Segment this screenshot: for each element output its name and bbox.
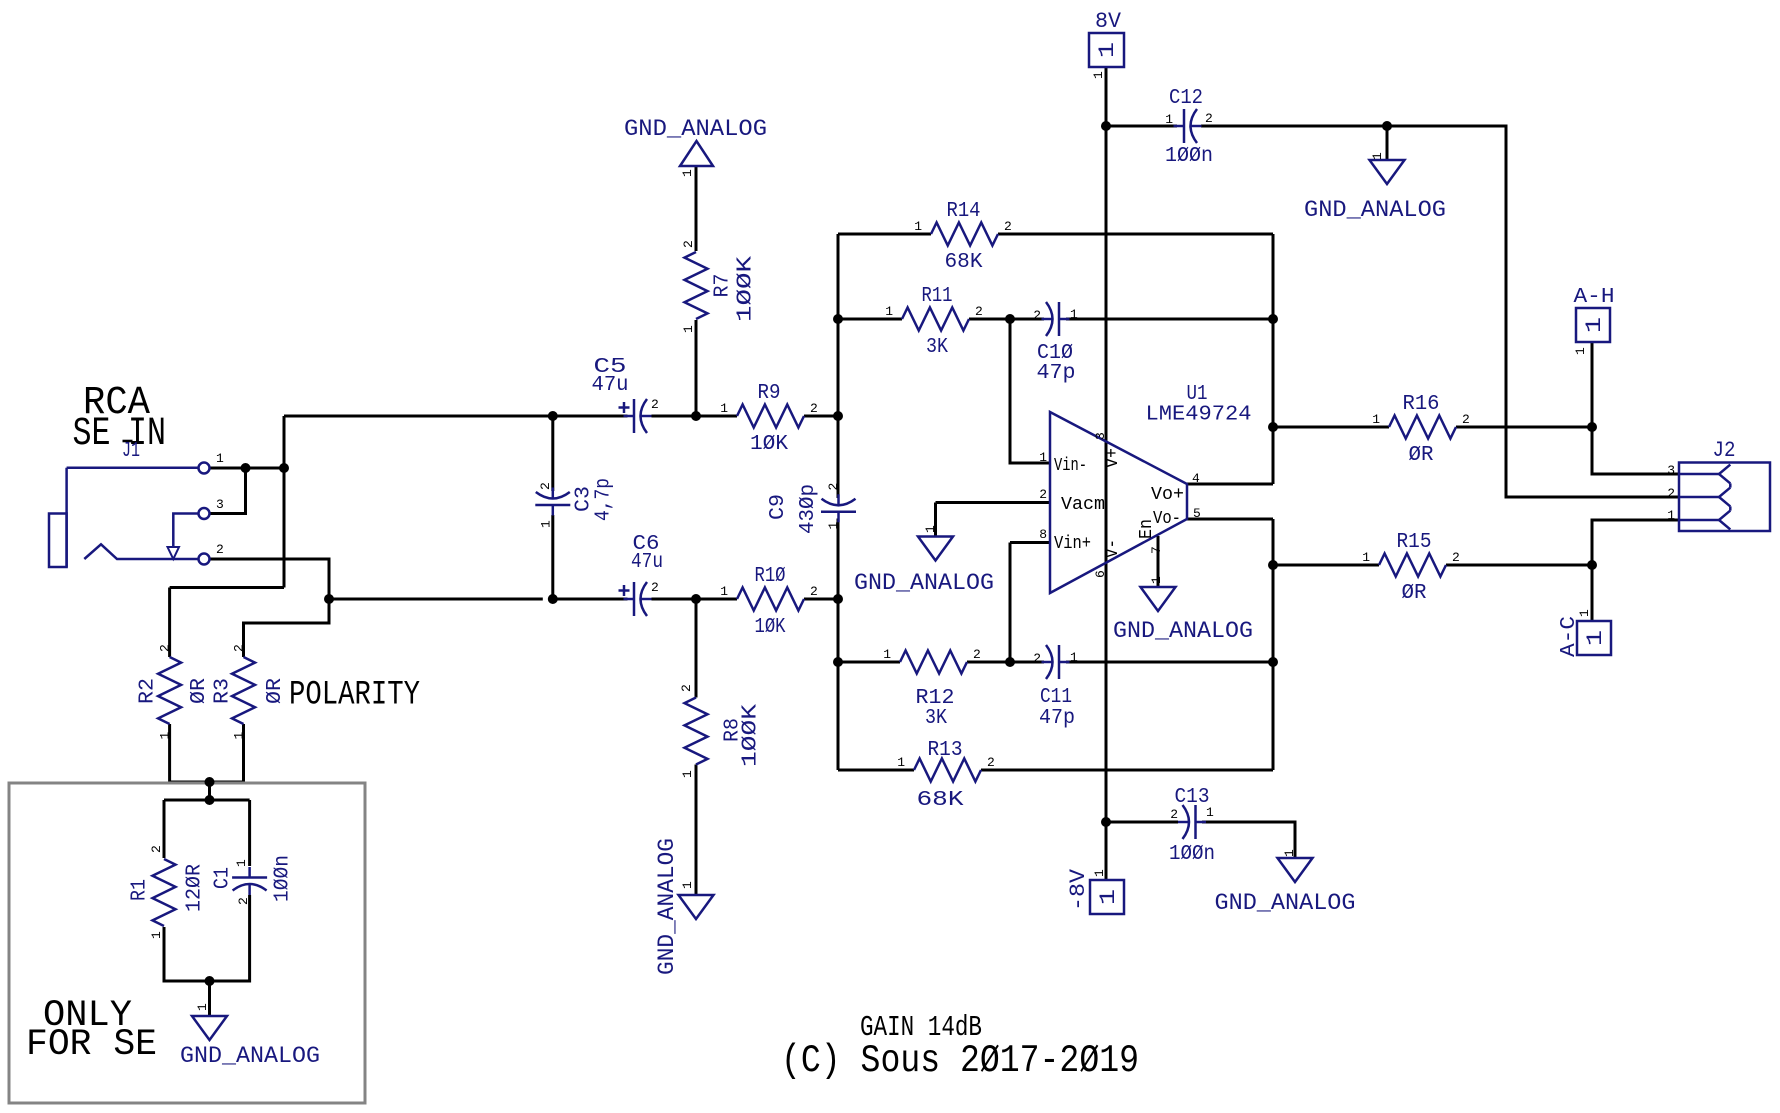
svg-text:FOR SE: FOR SE bbox=[26, 1024, 157, 1066]
svg-text:GND_ANALOG: GND_ANALOG bbox=[1304, 197, 1446, 224]
svg-text:R14: R14 bbox=[947, 200, 981, 223]
svg-text:2: 2 bbox=[149, 845, 164, 853]
svg-text:2: 2 bbox=[232, 644, 247, 652]
svg-text:C12: C12 bbox=[1169, 87, 1203, 110]
svg-text:2: 2 bbox=[1033, 651, 1041, 666]
svg-text:1: 1 bbox=[1165, 112, 1173, 127]
svg-text:R13: R13 bbox=[928, 739, 963, 762]
svg-text:47p: 47p bbox=[1039, 707, 1075, 730]
svg-text:2: 2 bbox=[1033, 308, 1041, 323]
svg-text:1: 1 bbox=[680, 770, 695, 778]
svg-text:ØR: ØR bbox=[1409, 444, 1434, 467]
svg-text:1: 1 bbox=[1149, 576, 1164, 584]
svg-text:ØR: ØR bbox=[1402, 582, 1427, 605]
svg-text:Vo+: Vo+ bbox=[1151, 485, 1184, 505]
svg-text:(C) Sous 2Ø17-2Ø19: (C) Sous 2Ø17-2Ø19 bbox=[781, 1039, 1139, 1083]
svg-text:1: 1 bbox=[897, 755, 905, 770]
svg-text:1: 1 bbox=[885, 304, 893, 319]
svg-text:2: 2 bbox=[1205, 111, 1213, 126]
svg-text:2: 2 bbox=[1004, 219, 1012, 234]
svg-text:1: 1 bbox=[1039, 450, 1047, 465]
svg-text:8V: 8V bbox=[1095, 9, 1122, 34]
svg-text:2: 2 bbox=[810, 584, 818, 599]
svg-text:2: 2 bbox=[236, 897, 251, 905]
svg-text:2: 2 bbox=[651, 397, 659, 412]
svg-text:J2: J2 bbox=[1713, 438, 1736, 463]
svg-text:1: 1 bbox=[1092, 869, 1107, 877]
svg-text:C13: C13 bbox=[1175, 786, 1210, 809]
svg-text:1: 1 bbox=[195, 1003, 210, 1011]
svg-text:1ØØK: 1ØØK bbox=[735, 255, 758, 322]
svg-text:R2: R2 bbox=[137, 678, 160, 704]
svg-text:2: 2 bbox=[679, 684, 694, 692]
svg-text:1: 1 bbox=[1095, 42, 1120, 58]
svg-text:R16: R16 bbox=[1403, 393, 1440, 416]
svg-text:1: 1 bbox=[1206, 805, 1214, 820]
svg-text:2: 2 bbox=[1039, 487, 1047, 502]
svg-text:LME49724: LME49724 bbox=[1146, 404, 1252, 427]
svg-text:5: 5 bbox=[1193, 506, 1201, 521]
svg-text:R9: R9 bbox=[758, 382, 781, 405]
svg-text:SE: SE bbox=[73, 412, 111, 457]
svg-text:C1: C1 bbox=[212, 867, 235, 889]
svg-text:12ØR: 12ØR bbox=[184, 864, 207, 912]
svg-text:ØR: ØR bbox=[188, 678, 211, 704]
svg-text:V-: V- bbox=[1103, 539, 1123, 558]
svg-text:1: 1 bbox=[216, 451, 224, 466]
svg-text:1: 1 bbox=[720, 401, 728, 416]
svg-text:43Øp: 43Øp bbox=[797, 484, 820, 534]
svg-text:Vacm: Vacm bbox=[1061, 495, 1105, 515]
svg-text:1: 1 bbox=[1070, 650, 1078, 665]
svg-text:1: 1 bbox=[720, 584, 728, 599]
svg-text:68K: 68K bbox=[917, 789, 964, 812]
svg-text:2: 2 bbox=[1667, 486, 1675, 501]
svg-text:A-C: A-C bbox=[1558, 616, 1581, 657]
svg-text:2: 2 bbox=[538, 482, 553, 490]
svg-text:2: 2 bbox=[987, 755, 995, 770]
svg-text:GND_ANALOG: GND_ANALOG bbox=[1113, 618, 1253, 645]
svg-text:GND_ANALOG: GND_ANALOG bbox=[654, 838, 681, 975]
svg-text:1ØØn: 1ØØn bbox=[1165, 145, 1213, 168]
svg-text:1: 1 bbox=[883, 647, 891, 662]
svg-text:1ØK: 1ØK bbox=[755, 616, 786, 639]
svg-text:1: 1 bbox=[158, 732, 173, 740]
svg-text:68K: 68K bbox=[945, 251, 983, 274]
svg-text:1: 1 bbox=[1577, 609, 1592, 617]
svg-text:V+: V+ bbox=[1103, 448, 1123, 468]
svg-text:47u: 47u bbox=[631, 551, 663, 574]
svg-text:1: 1 bbox=[1582, 317, 1607, 333]
svg-text:47p: 47p bbox=[1037, 362, 1076, 385]
svg-text:1: 1 bbox=[1282, 849, 1297, 857]
svg-text:J1: J1 bbox=[122, 440, 140, 463]
svg-text:1: 1 bbox=[149, 931, 164, 939]
svg-text:6: 6 bbox=[1093, 570, 1108, 578]
svg-text:2: 2 bbox=[1170, 807, 1178, 822]
svg-text:3K: 3K bbox=[926, 336, 948, 359]
svg-text:C9: C9 bbox=[767, 494, 790, 520]
svg-text:1: 1 bbox=[680, 881, 695, 889]
svg-text:1: 1 bbox=[1091, 71, 1106, 79]
svg-text:1: 1 bbox=[923, 525, 938, 533]
svg-text:1: 1 bbox=[232, 732, 247, 740]
svg-text:Vo-: Vo- bbox=[1153, 509, 1181, 529]
svg-text:2: 2 bbox=[810, 401, 818, 416]
svg-text:1: 1 bbox=[681, 325, 696, 333]
svg-text:R11: R11 bbox=[922, 285, 953, 308]
svg-text:R3: R3 bbox=[212, 678, 235, 704]
svg-text:2: 2 bbox=[975, 304, 983, 319]
svg-text:ØR: ØR bbox=[264, 678, 287, 704]
svg-text:1ØØK: 1ØØK bbox=[740, 704, 763, 767]
svg-text:GND_ANALOG: GND_ANALOG bbox=[180, 1043, 320, 1070]
svg-text:R15: R15 bbox=[1397, 531, 1432, 554]
svg-text:3: 3 bbox=[1667, 463, 1675, 478]
svg-text:7: 7 bbox=[1149, 546, 1164, 554]
svg-text:1ØØn: 1ØØn bbox=[272, 855, 295, 902]
svg-text:En: En bbox=[1137, 519, 1157, 539]
svg-text:POLARITY: POLARITY bbox=[289, 677, 420, 715]
svg-text:1: 1 bbox=[539, 520, 554, 528]
svg-text:2: 2 bbox=[1462, 412, 1470, 427]
svg-text:Vin+: Vin+ bbox=[1054, 534, 1091, 554]
svg-text:2: 2 bbox=[826, 483, 841, 491]
svg-text:1: 1 bbox=[1070, 307, 1078, 322]
svg-text:C11: C11 bbox=[1040, 686, 1072, 709]
svg-text:1: 1 bbox=[826, 522, 841, 530]
svg-text:1: 1 bbox=[1370, 152, 1385, 160]
svg-text:R7: R7 bbox=[712, 274, 735, 298]
svg-text:R1Ø: R1Ø bbox=[755, 565, 786, 588]
svg-text:1ØK: 1ØK bbox=[750, 433, 788, 456]
svg-text:2: 2 bbox=[681, 240, 696, 248]
svg-text:-8V: -8V bbox=[1066, 868, 1091, 911]
svg-text:1: 1 bbox=[234, 859, 249, 867]
svg-text:8: 8 bbox=[1039, 527, 1047, 542]
svg-text:GND_ANALOG: GND_ANALOG bbox=[1215, 890, 1356, 917]
svg-text:1: 1 bbox=[1372, 412, 1380, 427]
svg-text:Vin-: Vin- bbox=[1054, 456, 1087, 476]
svg-text:1: 1 bbox=[680, 169, 695, 177]
svg-text:GND_ANALOG: GND_ANALOG bbox=[854, 570, 994, 597]
svg-text:1: 1 bbox=[1583, 630, 1608, 646]
svg-text:1: 1 bbox=[1096, 889, 1121, 905]
svg-text:A-H: A-H bbox=[1574, 286, 1615, 309]
svg-text:3K: 3K bbox=[925, 707, 947, 730]
svg-text:1: 1 bbox=[1362, 550, 1370, 565]
svg-text:R1: R1 bbox=[129, 879, 152, 901]
svg-text:2: 2 bbox=[651, 580, 659, 595]
svg-text:2: 2 bbox=[973, 647, 981, 662]
svg-text:4: 4 bbox=[1192, 471, 1200, 486]
svg-text:3: 3 bbox=[1093, 432, 1108, 440]
svg-text:47u: 47u bbox=[592, 374, 629, 397]
svg-text:2: 2 bbox=[1452, 550, 1460, 565]
svg-text:1ØØn: 1ØØn bbox=[1169, 843, 1215, 866]
svg-text:1: 1 bbox=[914, 219, 922, 234]
svg-text:3: 3 bbox=[216, 497, 224, 512]
svg-text:1: 1 bbox=[1573, 347, 1588, 355]
svg-text:GND_ANALOG: GND_ANALOG bbox=[624, 116, 767, 143]
svg-text:1: 1 bbox=[1667, 508, 1675, 523]
svg-text:2: 2 bbox=[158, 644, 173, 652]
svg-text:2: 2 bbox=[216, 542, 224, 557]
svg-text:4,7p: 4,7p bbox=[593, 478, 616, 521]
